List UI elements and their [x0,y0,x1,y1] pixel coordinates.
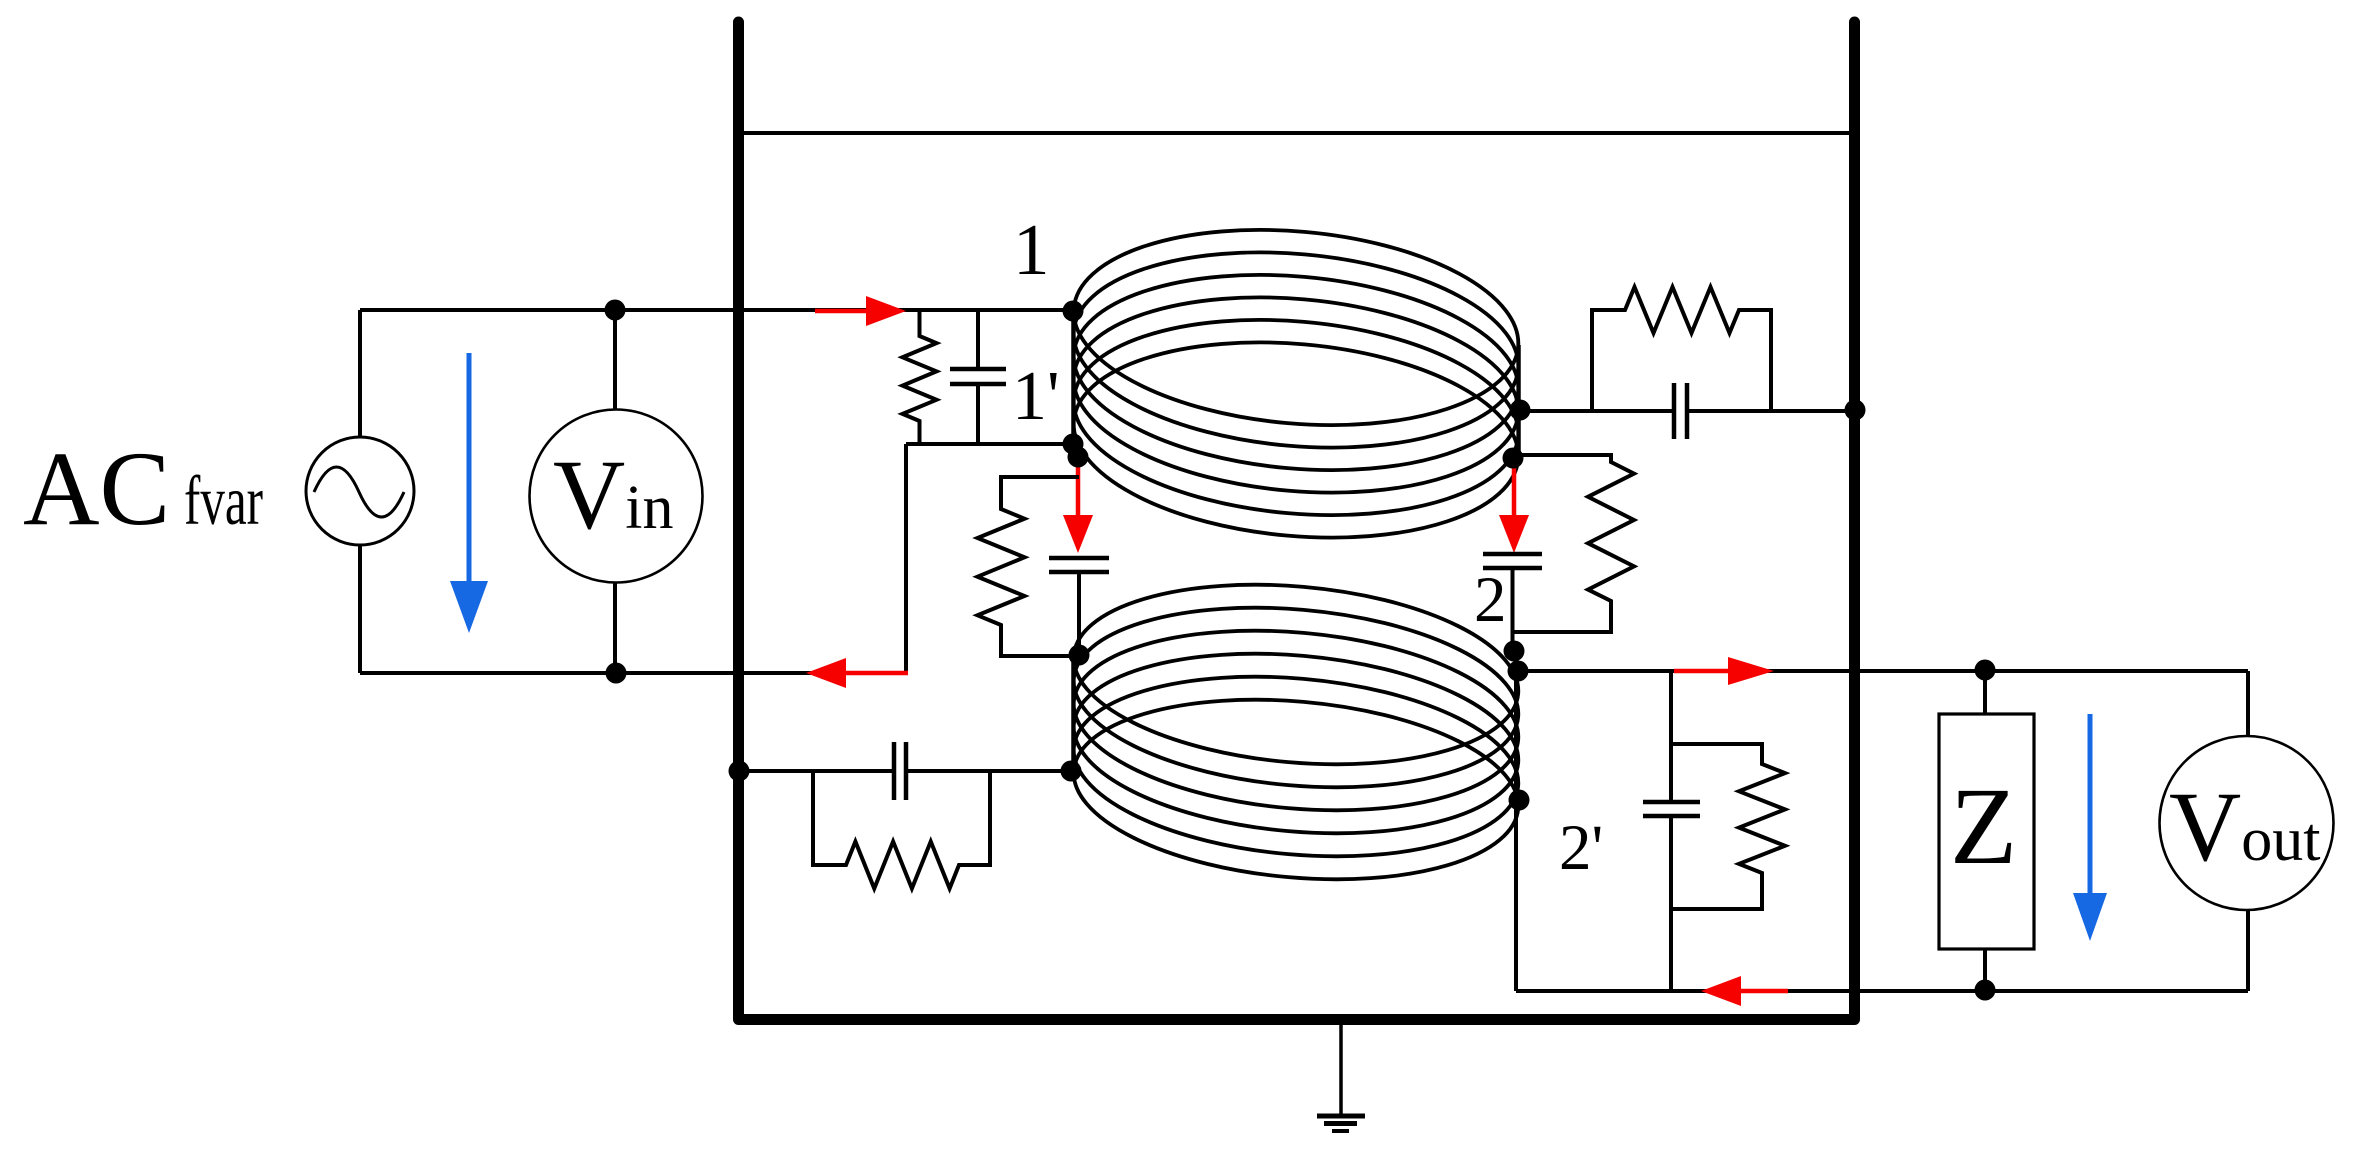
wire top input (AC to node 1) [360,308,1073,312]
capacitor Cp2 (series, bottom left) [894,742,906,800]
node 2' [1509,790,1530,811]
node 2 [1504,641,1525,662]
capacitor Cw1 (primary winding parallel C) [950,310,1006,444]
node Vin bottom [606,663,627,684]
node Vin top [605,300,626,321]
wire secondary bottom (shield to node 2') [739,769,1070,773]
inductor L1 primary coil [1065,212,1526,555]
label 1 [1013,209,1050,290]
voltmeter Vin [530,410,703,583]
svg-text:Z: Z [1950,765,2017,887]
svg-text:2: 2 [1474,564,1507,636]
svg-text:fvar: fvar [184,463,263,540]
node L2 bottom left [1061,761,1082,782]
resistor R12 (interwinding, left) [978,477,1080,656]
node L1 right upper [1510,400,1531,421]
red current arrow node 1' down [1063,458,1093,553]
inductor L2 secondary coil [1066,567,1526,896]
wire bottom input (AC to shield) [360,671,906,675]
node L2 top left [1069,645,1090,666]
svg-text:1': 1' [1012,358,1060,435]
blue current arrow output [2073,714,2107,941]
resistor Rw1 (primary winding parallel R) [903,310,937,444]
red current arrow output [1674,657,1774,685]
label 1' [1012,358,1060,435]
wire AC source leads [358,310,362,673]
blue current arrow input [450,353,488,633]
capacitor Cp1 (series, top right) [1674,383,1687,439]
node 1' upper [1063,434,1084,455]
red current arrow return [1701,976,1788,1006]
AC source [306,437,414,545]
label fvar [184,463,263,540]
resistor Rp2 (bottom left parallel) [813,771,990,889]
node 1 [1063,301,1084,322]
impedance Z [1939,714,2034,949]
wire output bottom [1516,910,2248,991]
wire node 1a to shield right [1521,409,1855,413]
wire shield inner top rail [744,131,1850,135]
red current arrow into node 1 [815,296,906,326]
node shield left tap [729,761,750,782]
wire node 2 to output [1514,651,1518,991]
capacitor C12b (interwinding, right) [1483,554,1542,651]
svg-text:AC: AC [23,430,170,547]
red current arrow node 2 down [1499,458,1529,553]
node shield right tap [1845,400,1866,421]
svg-text:1: 1 [1013,209,1050,290]
label AC [23,430,170,547]
node Z bottom [1975,980,1996,1001]
node 2 output junction [1508,661,1529,682]
node 1' lower [1068,447,1089,468]
resistor R12b (interwinding, right) [1513,455,1634,632]
shield box [739,22,1855,1020]
node Z top [1975,660,1996,681]
voltmeter Vout [2160,736,2334,910]
label 2 [1474,564,1507,636]
node L1 right lower [1503,448,1524,469]
impedance Z leads [1983,671,1987,991]
red current arrow out of shield (bottom left) [806,658,908,688]
wire output top [1518,671,2248,737]
resistor Rw2 (secondary winding parallel R) [1671,744,1785,909]
wire return drop [904,444,908,673]
resistor Rp1 (top right parallel) [1592,287,1771,411]
capacitor Cw2 (secondary winding parallel C) [1643,671,1700,991]
svg-text:2': 2' [1559,812,1603,884]
wire Vin leads [613,310,617,673]
ground [1317,1025,1365,1131]
label 2' [1559,812,1603,884]
capacitor C12 (interwinding, left) [1049,558,1109,655]
wire node 1' rail [906,442,1073,446]
